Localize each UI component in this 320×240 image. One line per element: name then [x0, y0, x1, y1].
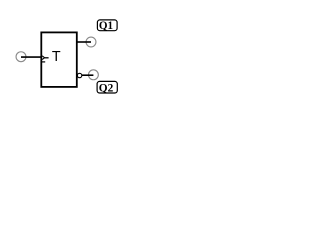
wire inverted Q output [82, 74, 94, 76]
svg-text:Q2: Q2 [99, 80, 114, 94]
label Q2 [97, 80, 117, 94]
output pin Q1 [86, 37, 96, 47]
svg-text:Q1: Q1 [99, 18, 113, 32]
pin stub lower [42, 61, 45, 63]
inversion bubble [77, 73, 81, 77]
wire input [21, 56, 41, 58]
input pin IN [16, 52, 26, 62]
output pin Q2 [88, 70, 98, 80]
svg-text:T: T [52, 49, 61, 65]
wire Q output [77, 41, 91, 43]
clock chevron [42, 56, 45, 60]
pin stub [45, 57, 49, 59]
T flip-flop U1 [41, 32, 77, 87]
label Q1 [97, 18, 117, 32]
